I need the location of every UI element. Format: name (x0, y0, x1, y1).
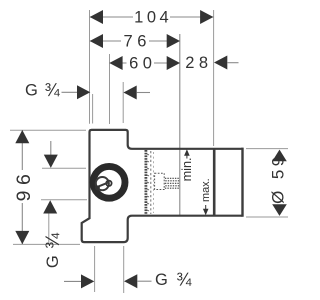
callout arrow at x=123 (123, 86, 136, 100)
dimension 104 left arrow (90, 10, 103, 24)
handle lever (97, 182, 108, 187)
dimension 76 right arrow (167, 34, 180, 48)
left port bottom arrow tail (48, 214, 50, 244)
thread root dashed line 2 (152, 152, 154, 213)
leader line G 3/4 top left (62, 91, 79, 93)
thread crest line (dense) (144, 150, 147, 215)
dimension 60 left arrow (109, 56, 122, 70)
dimension 76 left arrow (90, 34, 103, 48)
bottom port right arrow (124, 274, 137, 288)
handle small circle (96, 177, 109, 190)
leader arrow G 3/4 top left (77, 85, 90, 99)
min arrow (184, 149, 190, 156)
dimension 104 line (90, 16, 133, 18)
diameter 59 top arrow (272, 150, 287, 162)
extension line / min plane x=179.5 (179, 34, 181, 215)
svg-text:G: G (155, 271, 168, 289)
extension line left x=89.5 (89, 10, 91, 124)
bottom port left arrow tail (64, 280, 82, 282)
extension line x=109.5 (109, 54, 111, 124)
dimension 28 arrow tail (227, 62, 238, 64)
svg-text:G: G (25, 81, 38, 99)
max arrow (203, 209, 209, 216)
extension line x=92.5 (92, 94, 94, 124)
dimension 96 bottom extension line (13, 243, 80, 245)
left port bottom arrow (43, 200, 57, 213)
svg-text:60: 60 (129, 54, 156, 72)
bottom port left arrow (81, 274, 94, 288)
cylinder right face (funnel edge) (241, 148, 243, 217)
svg-text:max.: max. (200, 178, 212, 202)
dimension 104 right arrow (200, 10, 213, 24)
bottom port right extension line (123, 246, 125, 293)
dimension 60 line (110, 62, 127, 64)
callout arrow tail (137, 92, 150, 94)
handle lug circle (106, 181, 111, 186)
left port top arrow (44, 155, 58, 168)
svg-text:¾: ¾ (43, 232, 64, 249)
diameter 59 top extension line (246, 148, 288, 150)
left port bottom extension line (41, 199, 87, 201)
handle ring (93, 166, 125, 198)
left port top arrow tail (50, 141, 52, 156)
svg-text:96: 96 (13, 169, 35, 202)
dimension 96 top arrow (15, 130, 29, 143)
spindle dashed box (155, 173, 165, 189)
dimension 96 top extension line (10, 129, 86, 131)
svg-text:Ø 59: Ø 59 (269, 153, 288, 203)
diameter 59 bottom arrow (272, 204, 287, 216)
dimension 76 line (90, 40, 121, 42)
spindle threaded rod (hatched) (165, 178, 180, 188)
dimension 96 line (21, 130, 23, 170)
svg-text:104: 104 (134, 9, 172, 27)
thread root dashed line (150, 151, 152, 214)
svg-text:76: 76 (124, 33, 151, 51)
svg-text:¾: ¾ (176, 269, 192, 289)
extension line x=123 (122, 82, 124, 123)
thread profile ticks (147, 154, 149, 211)
handle lever knob (95, 185, 100, 190)
bottom port left extension line (94, 246, 96, 292)
svg-text:min.: min. (180, 157, 194, 181)
body outline (flange and sleeve) (82, 130, 243, 242)
svg-text:G: G (44, 255, 62, 268)
svg-text:¾: ¾ (45, 80, 61, 100)
left port top extension line (42, 167, 86, 169)
dimension 28 outside arrow (214, 56, 227, 70)
extension line right x=213.5 (213, 10, 215, 146)
svg-text:28: 28 (185, 54, 212, 72)
dimension 96 bottom arrow (15, 231, 29, 244)
diameter 59 bottom extension line (246, 216, 288, 218)
cylinder divider / max plane x=214 (213, 149, 216, 216)
dimension 60 right arrow (167, 56, 180, 70)
bottom port right arrow tail (137, 280, 151, 282)
